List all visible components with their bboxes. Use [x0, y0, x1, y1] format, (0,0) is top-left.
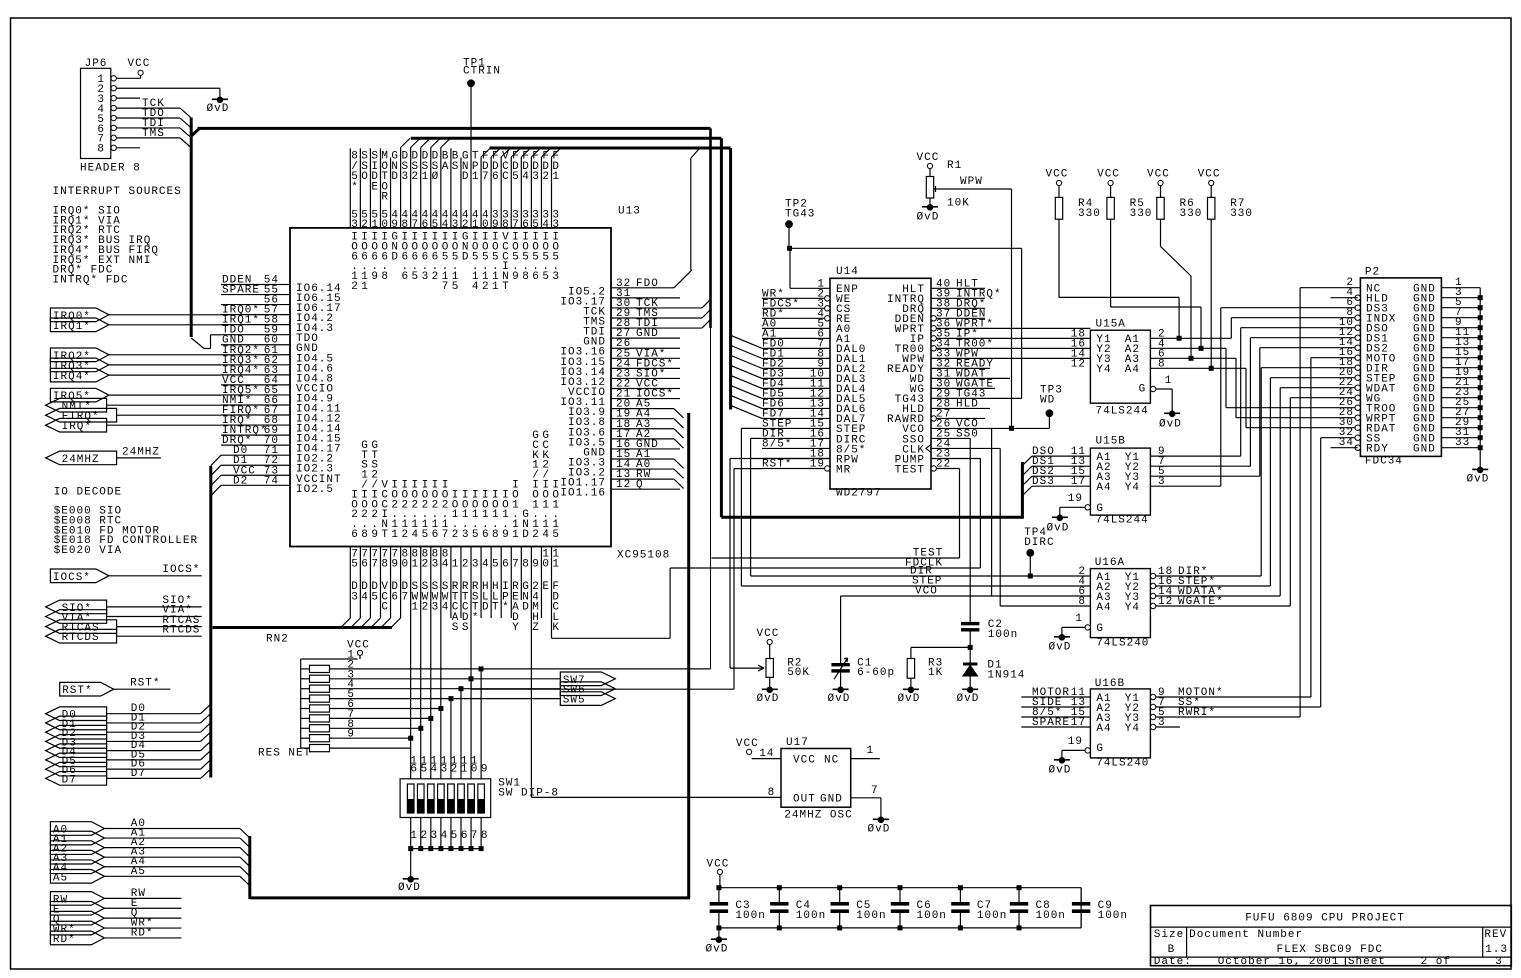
svg-text:D: D — [482, 602, 490, 614]
P2 pin 12 DS1 — [1355, 335, 1360, 340]
svg-text:3: 3 — [431, 830, 439, 842]
wire U15B Y2 to P2 DS1 — [1150, 465, 1250, 467]
U13 pin 59 TDO left — [221, 334, 290, 336]
svg-text:9: 9 — [502, 529, 510, 541]
wire SIO* stub — [107, 606, 202, 608]
U16B pin 17 SPARE — [1021, 726, 1090, 728]
flag RD* — [50, 931, 104, 945]
bus vertical (JTAG) left — [190, 118, 193, 338]
svg-text:8: 8 — [492, 529, 500, 541]
flag D7 — [46, 772, 107, 786]
svg-text:FLEX SBC09 FDC: FLEX SBC09 FDC — [1277, 944, 1383, 956]
svg-text:VCC: VCC — [917, 152, 940, 164]
svg-text:10K: 10K — [947, 198, 970, 210]
flag VIA* — [46, 610, 107, 624]
svg-text:VCC: VCC — [1097, 169, 1120, 181]
svg-text:5: 5 — [412, 271, 420, 283]
U13 top pin 43 BS — [450, 148, 452, 228]
svg-text:0: 0 — [471, 763, 479, 775]
junction — [449, 696, 454, 701]
svg-text:24MHZ OSC: 24MHZ OSC — [784, 809, 852, 821]
svg-text:7: 7 — [371, 558, 379, 570]
junction — [418, 726, 423, 731]
svg-text:HEADER 8: HEADER 8 — [80, 163, 141, 175]
svg-text:3: 3 — [462, 529, 470, 541]
flag D1 — [46, 716, 107, 730]
svg-text:1N914: 1N914 — [987, 669, 1025, 681]
JP6 pin1 wire to VCC — [116, 77, 140, 79]
svg-text:8: 8 — [361, 529, 369, 541]
svg-text:33: 33 — [1455, 437, 1470, 449]
bus vertical right of U13 (TEST/RN2 tail) — [710, 328, 712, 669]
wire D5 — [107, 759, 201, 761]
svg-text:IRQ1*: IRQ1* — [53, 321, 91, 333]
U13 pin 55 SPARE left — [221, 294, 290, 296]
wire WPW tick — [935, 186, 937, 192]
svg-text:$E020 VIA: $E020 VIA — [54, 545, 122, 557]
power VCC at R7 — [1209, 180, 1214, 185]
svg-text:6-60p: 6-60p — [857, 667, 895, 679]
svg-text:100n: 100n — [977, 910, 1007, 922]
svg-text:1: 1 — [492, 281, 500, 293]
connector P2 FDC34 body — [1360, 278, 1441, 457]
svg-text:12: 12 — [1071, 358, 1086, 370]
P2 pin 4 stub wire — [1331, 297, 1358, 299]
junction — [428, 716, 433, 721]
svg-text:WD: WD — [1040, 394, 1055, 406]
buffer U15A 74LS244 body — [1090, 330, 1150, 403]
junction — [438, 706, 443, 711]
U15B pin 17 DS3 — [1032, 485, 1090, 487]
svg-text:SS0: SS0 — [956, 428, 979, 440]
U14 pin 9 DAL2 left — [762, 367, 830, 369]
ground 0vD at U15A — [1169, 411, 1175, 417]
U14 pin 34 TR00 right — [931, 346, 936, 351]
wire IRQ4* — [109, 374, 221, 376]
svg-text:*: * — [502, 602, 510, 614]
wire U16A Y3 WDATA* to P2 — [1156, 595, 1280, 597]
flag 24MHZ — [46, 451, 117, 465]
wire JP6 TDO — [116, 117, 180, 119]
flag SIO* — [46, 600, 107, 614]
svg-text:6: 6 — [391, 591, 399, 603]
P2 pin 16 MOTO — [1355, 355, 1360, 360]
wire U17 pin7 GND — [851, 797, 881, 799]
resistor R1 10K — [929, 169, 931, 177]
wire R5 to U15A A2 — [1110, 219, 1112, 307]
U13 pin 28 TDI right — [611, 327, 702, 329]
U13 bottom pin 81 SW1 — [410, 547, 412, 779]
svg-text:5: 5 — [351, 558, 359, 570]
svg-text:100n: 100n — [988, 629, 1018, 641]
U13 top pin 41 TP1 — [470, 86, 472, 228]
svg-text:2: 2 — [422, 602, 430, 614]
svg-text:4: 4 — [442, 219, 450, 231]
svg-text:U17: U17 — [786, 737, 809, 749]
bus vertical A-bus left — [248, 836, 251, 899]
svg-text:0: 0 — [401, 558, 409, 570]
svg-text:D: D — [522, 602, 530, 614]
svg-text:3: 3 — [432, 602, 440, 614]
svg-text:6: 6 — [482, 529, 490, 541]
wire TP2 stem — [788, 227, 790, 248]
wire RPW drop — [729, 459, 731, 669]
svg-text:WPW: WPW — [960, 176, 983, 188]
svg-text:1: 1 — [512, 529, 520, 541]
svg-text:4: 4 — [542, 219, 550, 231]
U13 pin 23 SIO* right — [611, 377, 680, 379]
U13 pin 25 VIA* right — [611, 357, 680, 359]
U13 pin 64 VCC left — [221, 384, 290, 386]
P2 ground rail — [1479, 288, 1481, 469]
flag SW6 — [560, 682, 615, 696]
svg-text:8/5*: 8/5* — [762, 438, 792, 450]
U13 pin 62 IRQ3* left — [221, 364, 290, 366]
svg-text:6: 6 — [401, 271, 409, 283]
U13 top pin 38 VCC — [500, 157, 502, 228]
SW1 element 5 — [448, 784, 455, 813]
U13 pin 32 FDO right — [611, 287, 674, 289]
svg-text:Ø: Ø — [432, 171, 440, 183]
P2 pin 28 WRPT — [1355, 415, 1360, 420]
flag SW5 — [560, 692, 615, 706]
wire TG43 vertical — [1021, 248, 1023, 398]
diode D1 1N914 — [969, 647, 971, 662]
resistor R3 1K — [910, 647, 912, 658]
wire STEP row — [741, 585, 1090, 587]
svg-text:R: R — [381, 192, 389, 204]
svg-text:RST*: RST* — [762, 458, 792, 470]
buffer U15B 74LS244 body — [1090, 448, 1150, 515]
svg-text:P2: P2 — [1365, 267, 1380, 279]
svg-text:VCC: VCC — [128, 58, 151, 70]
capacitor rail right side — [1080, 888, 1082, 928]
svg-text:1: 1 — [391, 529, 399, 541]
SW1 element 1 — [407, 784, 414, 813]
wire U14 ENP to TG43 net — [789, 248, 791, 288]
svg-text:S: S — [452, 622, 460, 634]
RN2 row5 wire to SW5 — [330, 698, 561, 700]
U14 pin 5 A0 left — [762, 327, 830, 329]
U13 top pin 51 SIDE — [369, 148, 371, 228]
wire address bus entry diagonal — [674, 469, 684, 478]
svg-text:Date:: Date: — [1154, 956, 1192, 968]
svg-text:74LS244: 74LS244 — [1096, 514, 1149, 526]
svg-text:Y4: Y4 — [1125, 602, 1140, 614]
resistor R6 330 — [1160, 186, 1162, 198]
svg-text:6: 6 — [410, 763, 418, 775]
U14 pin 38 DRQ right — [931, 307, 985, 309]
U13 pin 65 IRQ5* left — [221, 394, 290, 396]
svg-text:2: 2 — [482, 281, 490, 293]
flag RTCDS — [46, 629, 117, 643]
bus vertical right (disk signal fan) — [1021, 462, 1024, 519]
flag IRQ2* — [50, 348, 109, 362]
U14 pin 6 A1 left — [762, 337, 830, 339]
U14 pin 19 MR left — [762, 467, 825, 469]
buffer U16A 74LS240 body — [1090, 569, 1150, 638]
U13 bottom pin 5 HLT — [490, 547, 492, 619]
wire JP6 TCK — [116, 107, 180, 109]
U13 pin 29 TMS right — [611, 317, 702, 319]
svg-text:100n: 100n — [1036, 910, 1066, 922]
wire VCO row — [841, 595, 1091, 597]
U13 top pin 48 DS3 — [400, 148, 402, 228]
P2 pin 34 stub wire — [1331, 447, 1358, 449]
svg-text:74LS244: 74LS244 — [1096, 406, 1149, 418]
U15B pin 11 DSO — [1032, 455, 1090, 457]
svg-text:7: 7 — [512, 558, 520, 570]
wire address bus entry diagonal — [674, 459, 684, 468]
svg-text:D2: D2 — [233, 475, 248, 487]
wire A5 — [104, 875, 240, 877]
svg-text:1: 1 — [472, 219, 480, 231]
U14 pin 7 DAL0 left — [762, 347, 830, 349]
svg-text:S: S — [452, 161, 460, 173]
svg-text:1: 1 — [552, 171, 560, 183]
svg-text:5: 5 — [512, 171, 520, 183]
SW1 element 3 — [428, 784, 435, 813]
svg-text:6: 6 — [522, 219, 530, 231]
wire E stub — [104, 907, 181, 909]
svg-text:5: 5 — [420, 763, 428, 775]
junction — [1199, 346, 1204, 351]
bus horizontal top (JTAG) — [198, 127, 711, 130]
wire D2 — [107, 731, 201, 733]
wire IRQ1* — [109, 324, 221, 326]
svg-text:8: 8 — [401, 219, 409, 231]
wire R6 to U15A A3 — [1160, 219, 1162, 246]
svg-text:5: 5 — [432, 219, 440, 231]
U13 top pin 44 BA — [440, 148, 442, 228]
svg-text:2: 2 — [432, 271, 440, 283]
U14 pin 16 DIRC left — [762, 437, 830, 439]
flag IRQ0* — [50, 308, 109, 322]
U14 pin 23 PUMP right — [931, 457, 980, 459]
wire U16A Y4 WGATE* to P2 — [1156, 605, 1291, 607]
U13 pin 13 RW right — [611, 478, 674, 480]
P2 pin 32 SS — [1355, 435, 1360, 440]
svg-text:T: T — [492, 602, 500, 614]
svg-text:RST*: RST* — [62, 685, 92, 697]
svg-text:U14: U14 — [836, 266, 859, 278]
bus vertical (data) left lower — [209, 466, 212, 778]
wire RST* drop — [733, 469, 735, 690]
U13 bottom pin 4 HLD — [480, 547, 482, 619]
power VCC at R5 — [1108, 180, 1113, 185]
svg-text:7: 7 — [442, 281, 450, 293]
P2 pin 26 TROO — [1355, 405, 1360, 410]
U13 bottom pin 83 SW3 — [430, 547, 432, 779]
svg-text:2: 2 — [542, 171, 550, 183]
svg-text:October 16, 2001: October 16, 2001 — [1218, 956, 1340, 968]
wire RTCAS stub — [117, 626, 202, 628]
svg-text:2: 2 — [420, 830, 428, 842]
wire address bus entry diagonal — [674, 429, 684, 438]
svg-text:SW5: SW5 — [563, 695, 586, 707]
svg-text:2: 2 — [422, 558, 430, 570]
svg-text:0: 0 — [381, 219, 389, 231]
svg-text:7: 7 — [512, 219, 520, 231]
svg-text:D: D — [462, 251, 470, 263]
svg-text:4: 4 — [522, 171, 530, 183]
U14 pin 22 TEST right — [931, 466, 936, 471]
ground 0vD at U16A — [1059, 635, 1065, 641]
wire TEST row — [711, 557, 959, 559]
flag IRQ* — [46, 418, 107, 432]
svg-text:XC95108: XC95108 — [617, 550, 670, 562]
FDC U14 WD2797 body — [830, 278, 931, 489]
svg-text:G: G — [1139, 383, 1147, 395]
svg-text:O: O — [361, 171, 369, 183]
ground 0vD at C1 — [838, 687, 844, 693]
svg-text:17: 17 — [1071, 476, 1086, 488]
svg-text:3: 3 — [552, 219, 560, 231]
svg-text:100n: 100n — [856, 910, 886, 922]
wire WR* stub — [104, 927, 181, 929]
U16B pin 11 MOTOR — [1021, 696, 1090, 698]
U14 pin 1 ENP left — [790, 287, 830, 289]
U14 pin 37 DDEN right — [931, 316, 936, 321]
wire RST* stub — [114, 688, 171, 690]
resistor R5 330 — [1110, 186, 1112, 198]
svg-text:CTRIN: CTRIN — [463, 66, 501, 78]
svg-text:7: 7 — [412, 219, 420, 231]
junction — [1189, 356, 1194, 361]
svg-text:1: 1 — [472, 171, 480, 183]
wire A1 — [104, 837, 240, 839]
RN2 row3 wire to SW7 — [330, 678, 561, 680]
svg-text:Y: Y — [512, 622, 520, 634]
svg-text:TG43: TG43 — [785, 208, 815, 220]
svg-text:RN2: RN2 — [266, 634, 289, 646]
svg-text:B: B — [1168, 944, 1176, 956]
junction — [469, 676, 474, 681]
svg-text:3: 3 — [422, 271, 430, 283]
svg-text:3: 3 — [552, 271, 560, 283]
svg-text:9: 9 — [347, 729, 355, 741]
wire FDCLK left drop — [669, 568, 671, 638]
power VCC at R1 — [927, 163, 932, 168]
svg-text:REV: REV — [1484, 929, 1507, 941]
RN2 row9 wire — [330, 737, 411, 739]
buffer U16B 74LS240 body — [1090, 689, 1150, 758]
wire IRQ3* — [109, 364, 221, 366]
junction — [1009, 426, 1014, 431]
bus vertical (disk signals) — [720, 138, 723, 517]
svg-text:9: 9 — [391, 558, 399, 570]
svg-text:100n: 100n — [735, 910, 765, 922]
svg-text:1: 1 — [552, 558, 560, 570]
svg-text:ØvD: ØvD — [957, 693, 980, 705]
svg-text:4: 4 — [412, 529, 420, 541]
svg-text:22: 22 — [936, 458, 951, 470]
svg-text:RD*: RD* — [131, 927, 154, 939]
U14 pin 13 DAL6 left — [762, 407, 830, 409]
U13 pin 73 VCC left — [221, 474, 290, 476]
svg-text:5: 5 — [452, 281, 460, 293]
svg-text:E: E — [371, 181, 379, 193]
U13 bottom pin 76 D4 — [359, 547, 361, 619]
flag RTCAS — [46, 620, 117, 634]
U13 pin 74 D2 left — [221, 484, 290, 486]
P2 pin 30 RDAT — [1355, 425, 1360, 430]
svg-text:ØvD: ØvD — [1047, 523, 1070, 535]
svg-text:*: * — [472, 612, 480, 624]
svg-text:6: 6 — [532, 271, 540, 283]
wire TDO to bus — [191, 338, 204, 349]
svg-text:C: C — [502, 171, 510, 183]
svg-text:1K: 1K — [928, 667, 943, 679]
svg-text:1: 1 — [412, 558, 420, 570]
wire U16B Y2 SS* to P2 SS — [1156, 706, 1321, 708]
ground 0vD at SW1 — [408, 877, 414, 883]
flag D5 — [46, 753, 107, 767]
RN2 resistor element 10 — [301, 747, 310, 749]
svg-text:74LS240: 74LS240 — [1096, 758, 1149, 770]
svg-text:19: 19 — [1068, 493, 1083, 505]
ground 0vD at D1 — [967, 687, 973, 693]
svg-text:0: 0 — [482, 219, 490, 231]
U14 pin 2 WE left — [762, 297, 825, 299]
oscillator U17 24MHZ body — [781, 749, 851, 808]
svg-text:100n: 100n — [796, 910, 826, 922]
svg-text:GND: GND — [820, 794, 843, 806]
U13 bottom pin 75 D3 — [349, 547, 351, 619]
wire JTAG tap diagonal — [702, 299, 711, 308]
U13 bottom pin 77 D5 — [369, 547, 371, 619]
U13 pin 70 DRQ* left — [221, 444, 290, 446]
wire U14 STEP ext — [741, 427, 762, 429]
flag A4 — [50, 860, 104, 874]
svg-text:100n: 100n — [917, 910, 947, 922]
svg-text:9: 9 — [391, 219, 399, 231]
capacitor C6 100n — [899, 888, 901, 902]
connector JP6 — [81, 68, 111, 158]
svg-text:INTRQ* FDC: INTRQ* FDC — [53, 275, 129, 287]
U13 top pin 53 8/5* — [349, 148, 351, 228]
svg-text:RTCDS: RTCDS — [162, 624, 200, 636]
svg-text:8: 8 — [522, 558, 530, 570]
RN2 row4 wire to SW6 — [330, 688, 561, 690]
U13 top pin 40 FD7 — [480, 157, 482, 228]
flag A2 — [50, 841, 104, 855]
svg-text:8: 8 — [522, 271, 530, 283]
flag IRQ4* — [50, 368, 109, 382]
capacitor C3 100n — [718, 888, 720, 902]
bus horizontal top 3 (FD bus) — [490, 147, 731, 150]
svg-text:6: 6 — [432, 529, 440, 541]
U13 top pin 37 FD5 — [510, 157, 512, 228]
svg-text:OUT: OUT — [793, 794, 816, 806]
wire U15A A3 to P2 WRPT — [1150, 357, 1236, 359]
U13 pin 56 (nc) left — [221, 304, 290, 306]
flag A5 — [50, 870, 104, 884]
power VCC at R4 — [1056, 180, 1061, 185]
svg-text:74: 74 — [264, 475, 279, 487]
capacitor C1 6-60p — [840, 596, 842, 663]
flag A0 — [50, 822, 104, 836]
svg-text:4: 4 — [542, 529, 550, 541]
svg-text:330: 330 — [1180, 208, 1203, 220]
wire TEST riser — [959, 468, 961, 558]
capacitor C7 100n — [959, 888, 961, 902]
svg-text:IOCS*: IOCS* — [162, 564, 200, 576]
svg-text:IO2.5: IO2.5 — [296, 484, 334, 496]
svg-text:Y4: Y4 — [1125, 723, 1140, 735]
U14 pin 8 DAL1 left — [762, 357, 830, 359]
svg-text:5: 5 — [532, 219, 540, 231]
